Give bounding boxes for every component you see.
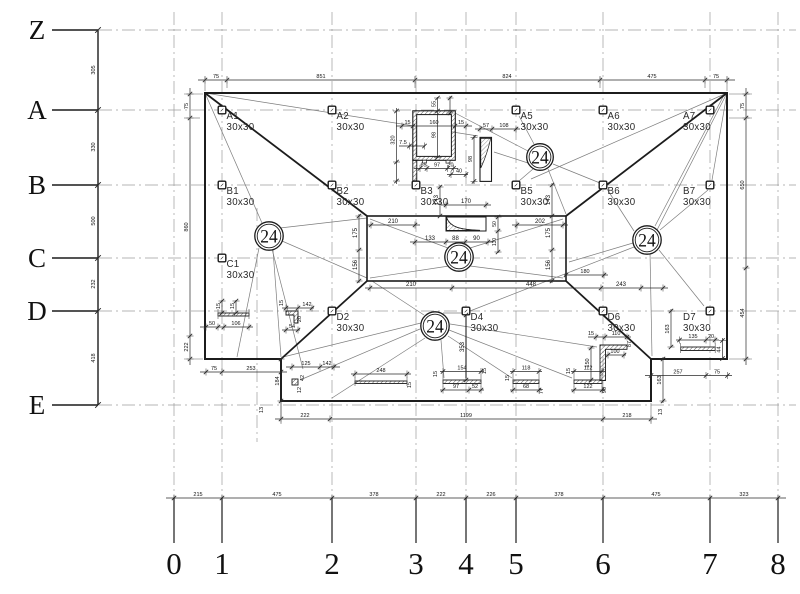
svg-text:15: 15 (482, 368, 488, 374)
central flat roof rectangle (367, 216, 566, 281)
svg-text:A: A (27, 95, 47, 125)
svg-text:143: 143 (546, 194, 552, 205)
svg-text:55: 55 (432, 101, 438, 107)
svg-text:475: 475 (651, 492, 660, 498)
beam b2 (513, 380, 539, 384)
column B1 30x30 (218, 181, 226, 189)
vdim B3 to rect (437, 185, 444, 216)
svg-text:30x30: 30x30 (337, 197, 365, 208)
svg-text:454: 454 (740, 308, 746, 317)
bar end extension ticks (218, 309, 715, 387)
roof drain 24 #3 (633, 226, 661, 254)
svg-text:378: 378 (554, 492, 563, 498)
svg-text:44: 44 (717, 346, 723, 352)
svg-text:125: 125 (301, 361, 310, 367)
svg-text:108: 108 (499, 123, 508, 129)
L-wall detail near D2 (286, 311, 298, 323)
svg-text:253: 253 (246, 366, 255, 372)
svg-text:75: 75 (713, 74, 719, 80)
svg-text:D6: D6 (608, 312, 621, 323)
bottom axis number ticks (174, 498, 778, 543)
svg-text:330: 330 (91, 142, 97, 151)
svg-text:75: 75 (740, 103, 746, 109)
svg-text:448: 448 (526, 282, 537, 288)
svg-text:90: 90 (473, 236, 480, 242)
svg-text:248: 248 (376, 368, 385, 374)
svg-text:170: 170 (461, 199, 472, 205)
hip ridge NE (566, 93, 727, 216)
small vdim (447, 96, 454, 114)
wedge col left vdim (471, 135, 478, 184)
svg-text:650: 650 (740, 180, 746, 189)
channel wall extension to B3 (413, 160, 417, 181)
svg-text:40: 40 (456, 169, 462, 175)
top dimension line (198, 77, 735, 84)
beam near C1 (218, 313, 249, 316)
svg-text:118: 118 (522, 366, 531, 372)
svg-text:222: 222 (184, 342, 190, 351)
svg-text:30x30: 30x30 (227, 197, 255, 208)
svg-text:24: 24 (450, 248, 468, 269)
D4 drop dim (463, 315, 470, 380)
svg-text:133: 133 (425, 236, 436, 242)
svg-text:150: 150 (585, 358, 591, 367)
svg-text:98: 98 (468, 156, 474, 162)
svg-text:52: 52 (472, 384, 478, 390)
left axis letters Z A B C D E (52, 30, 98, 405)
svg-text:163: 163 (657, 375, 663, 384)
svg-text:24: 24 (638, 231, 656, 252)
svg-text:5: 5 (508, 546, 524, 581)
svg-text:202: 202 (535, 219, 546, 225)
svg-text:42: 42 (300, 375, 306, 381)
inner vdim 50 (495, 215, 502, 253)
svg-text:75: 75 (213, 74, 219, 80)
svg-text:A6: A6 (608, 111, 620, 122)
svg-text:24: 24 (531, 148, 549, 169)
column B6 30x30 (599, 181, 607, 189)
svg-text:8: 8 (770, 546, 786, 581)
svg-text:143: 143 (434, 194, 440, 205)
dim 170 above wedge (441, 202, 491, 209)
svg-text:226: 226 (486, 492, 495, 498)
svg-text:15: 15 (404, 120, 410, 126)
svg-text:232: 232 (91, 279, 97, 288)
svg-text:30x30: 30x30 (608, 122, 636, 133)
svg-text:D2: D2 (337, 312, 350, 323)
svg-text:57: 57 (483, 123, 489, 129)
svg-text:A1: A1 (227, 111, 239, 122)
svg-text:30x30: 30x30 (227, 122, 255, 133)
svg-text:142: 142 (302, 302, 311, 308)
roof drain 24 #1 (255, 222, 283, 250)
column B3 30x30 (412, 181, 420, 189)
channel left vdim (393, 108, 400, 184)
svg-text:24: 24 (426, 317, 444, 338)
svg-text:418: 418 (91, 353, 97, 362)
dim 210 in rect (367, 222, 420, 229)
svg-text:320: 320 (391, 135, 397, 144)
svg-text:B3: B3 (421, 186, 433, 197)
svg-text:20: 20 (297, 316, 303, 322)
pad dims (286, 364, 340, 371)
svg-text:24: 24 (260, 227, 278, 248)
svg-text:257: 257 (673, 370, 682, 376)
svg-text:2: 2 (324, 546, 340, 581)
svg-text:98: 98 (432, 132, 438, 138)
svg-text:475: 475 (647, 74, 656, 80)
svg-text:13: 13 (259, 407, 265, 413)
svg-text:A5: A5 (521, 111, 533, 122)
svg-text:30x30: 30x30 (337, 323, 365, 334)
svg-text:15: 15 (588, 331, 594, 337)
svg-text:54: 54 (289, 324, 295, 330)
svg-text:215: 215 (193, 492, 202, 498)
svg-text:305: 305 (91, 65, 97, 74)
svg-text:100: 100 (610, 349, 619, 355)
notch vdim 184 (278, 359, 285, 419)
svg-text:110: 110 (612, 331, 621, 337)
svg-text:15: 15 (230, 303, 236, 309)
notch dims 75 253 (200, 369, 287, 376)
svg-text:A2: A2 (337, 111, 349, 122)
svg-text:156: 156 (546, 259, 552, 270)
svg-text:6: 6 (595, 546, 611, 581)
svg-text:30x30: 30x30 (521, 122, 549, 133)
Z leg height (588, 346, 595, 382)
right dimension line (743, 88, 750, 365)
svg-text:210: 210 (388, 219, 399, 225)
svg-text:15: 15 (279, 300, 285, 306)
svg-text:184: 184 (275, 376, 281, 385)
svg-text:E: E (29, 390, 46, 420)
svg-text:154: 154 (457, 366, 466, 372)
svg-text:180: 180 (580, 269, 589, 275)
svg-text:7.5: 7.5 (399, 140, 407, 146)
thin roof slope leader lines (205, 93, 727, 398)
D7 drop dim (668, 309, 675, 347)
svg-text:20: 20 (708, 334, 714, 340)
long beam (355, 381, 407, 384)
svg-text:851: 851 (316, 74, 325, 80)
svg-text:824: 824 (502, 74, 511, 80)
svg-text:90: 90 (602, 387, 608, 393)
svg-text:B2: B2 (337, 186, 349, 197)
svg-text:B1: B1 (227, 186, 239, 197)
svg-text:1199: 1199 (460, 413, 472, 419)
svg-text:142: 142 (322, 361, 331, 367)
svg-text:30x30: 30x30 (683, 323, 711, 334)
svg-text:B6: B6 (608, 186, 620, 197)
svg-text:0: 0 (166, 546, 182, 581)
dims 50 106 (200, 324, 253, 331)
svg-text:4: 4 (458, 546, 474, 581)
column A2 30x30 (328, 106, 336, 114)
dims below wedge (410, 239, 493, 246)
step vdim (660, 357, 667, 403)
svg-text:13: 13 (658, 409, 664, 415)
roof drain 24 #2 (527, 144, 554, 171)
wall thickness dim (399, 143, 425, 150)
svg-text:130: 130 (492, 238, 498, 247)
svg-text:D: D (27, 296, 47, 326)
svg-text:C: C (28, 243, 46, 273)
svg-text:88: 88 (452, 236, 459, 242)
beam at D7 (681, 347, 716, 351)
svg-text:222: 222 (436, 492, 445, 498)
svg-text:30x30: 30x30 (521, 197, 549, 208)
hip ridge SE (566, 281, 651, 359)
svg-text:15: 15 (458, 120, 464, 126)
svg-text:D7: D7 (683, 312, 696, 323)
svg-text:218: 218 (622, 413, 631, 419)
svg-text:15: 15 (407, 382, 413, 388)
bottom dimension chain (166, 495, 786, 502)
svg-text:50: 50 (209, 321, 215, 327)
column A1 30x30 (218, 106, 226, 114)
dim 248 (351, 371, 411, 378)
left flank dims (356, 214, 363, 283)
channel bottom dims (414, 165, 458, 172)
svg-text:15: 15 (433, 371, 439, 377)
hip ridge SW (281, 281, 367, 359)
dim 40 (447, 171, 468, 178)
svg-text:30x30: 30x30 (608, 197, 636, 208)
haunch plate detail (446, 217, 486, 231)
column D4 30x30 (462, 307, 470, 315)
column B5 30x30 (512, 181, 520, 189)
svg-text:87: 87 (627, 341, 633, 347)
Z-shaped wall detail near D6 (600, 345, 627, 381)
svg-text:75: 75 (714, 370, 720, 376)
svg-text:30x30: 30x30 (471, 323, 499, 334)
dim 44 (719, 338, 726, 360)
svg-text:135: 135 (688, 334, 697, 340)
svg-text:323: 323 (739, 492, 748, 498)
svg-text:106: 106 (231, 321, 240, 327)
svg-text:3: 3 (408, 546, 424, 581)
svg-text:65: 65 (420, 163, 426, 169)
svg-text:15: 15 (566, 368, 572, 374)
svg-text:Z: Z (29, 15, 46, 45)
svg-text:243: 243 (616, 282, 627, 288)
column D7 30x30 (706, 307, 714, 315)
svg-text:B: B (28, 170, 46, 200)
svg-text:68: 68 (523, 384, 529, 390)
svg-text:77: 77 (539, 388, 545, 394)
svg-text:156: 156 (353, 259, 359, 270)
dim 100 (606, 352, 626, 359)
svg-text:175: 175 (353, 227, 359, 238)
svg-text:75: 75 (184, 103, 190, 109)
beam b3 (574, 380, 602, 384)
svg-text:1: 1 (214, 546, 230, 581)
column D2 30x30 (328, 307, 336, 315)
column A7 30x30 (706, 106, 714, 114)
column A6 30x30 (599, 106, 607, 114)
channel top dims (396, 123, 472, 130)
svg-text:50: 50 (492, 221, 498, 227)
D7 beam dims (676, 337, 719, 344)
svg-text:500: 500 (91, 216, 97, 225)
stair shaft channel detail (413, 111, 456, 161)
svg-text:30x30: 30x30 (683, 122, 711, 133)
dim 202 in rect (512, 222, 568, 229)
svg-text:860: 860 (184, 222, 190, 231)
svg-text:B5: B5 (521, 186, 533, 197)
svg-text:7: 7 (702, 546, 718, 581)
dim 180 (564, 272, 608, 279)
column C1 30x30 (218, 254, 226, 262)
svg-text:12: 12 (297, 387, 303, 393)
svg-text:30x30: 30x30 (337, 122, 365, 133)
beam b1 (443, 380, 481, 384)
column B2 30x30 (328, 181, 336, 189)
hip ridge NW (205, 93, 367, 216)
channel inner vdim (434, 97, 441, 158)
svg-text:15: 15 (216, 303, 222, 309)
svg-text:B7: B7 (683, 186, 695, 197)
small pad (292, 379, 298, 385)
svg-text:D4: D4 (471, 312, 484, 323)
wedge col top dims (475, 126, 520, 133)
right flank dims (549, 183, 556, 283)
bottom right dims (645, 372, 732, 379)
column D6 30x30 (599, 307, 607, 315)
svg-text:175: 175 (546, 227, 552, 238)
svg-text:30x30: 30x30 (227, 270, 255, 281)
svg-text:97: 97 (453, 384, 459, 390)
svg-text:75: 75 (211, 366, 217, 372)
left dimension line (187, 88, 194, 365)
svg-text:15: 15 (505, 375, 511, 381)
building outline (205, 93, 727, 401)
svg-text:97: 97 (434, 163, 440, 169)
wedge column detail (480, 137, 492, 181)
svg-text:C1: C1 (227, 259, 240, 270)
svg-text:30x30: 30x30 (683, 197, 711, 208)
svg-text:A7: A7 (683, 111, 695, 122)
column A5 30x30 (512, 106, 520, 114)
svg-text:210: 210 (406, 282, 417, 288)
column B7 30x30 (706, 181, 714, 189)
svg-text:163: 163 (665, 324, 671, 333)
roof drain 24 #5 (421, 312, 449, 340)
grid axes dash-dot (99, 12, 796, 498)
svg-text:353: 353 (460, 341, 466, 352)
svg-text:475: 475 (272, 492, 281, 498)
dim under rect (365, 285, 668, 292)
lower dim chain (275, 416, 657, 423)
svg-text:378: 378 (369, 492, 378, 498)
roof drain 24 #4 (445, 243, 473, 271)
svg-text:222: 222 (300, 413, 309, 419)
svg-text:122: 122 (583, 384, 592, 390)
Z-wall top dims (588, 334, 631, 341)
svg-text:20: 20 (447, 163, 453, 169)
